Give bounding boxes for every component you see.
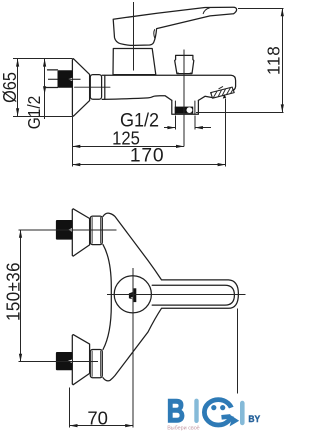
svg-text:BY: BY (248, 413, 260, 424)
svg-text:150±36: 150±36 (3, 262, 24, 321)
svg-text:118: 118 (263, 45, 284, 75)
svg-text:G1/2: G1/2 (24, 96, 44, 130)
svg-text:70: 70 (87, 408, 108, 429)
svg-text:B: B (167, 394, 185, 430)
svg-text:170: 170 (130, 146, 165, 167)
svg-text:Ø65: Ø65 (0, 72, 20, 103)
svg-text:Выбери своё: Выбери своё (167, 426, 200, 432)
